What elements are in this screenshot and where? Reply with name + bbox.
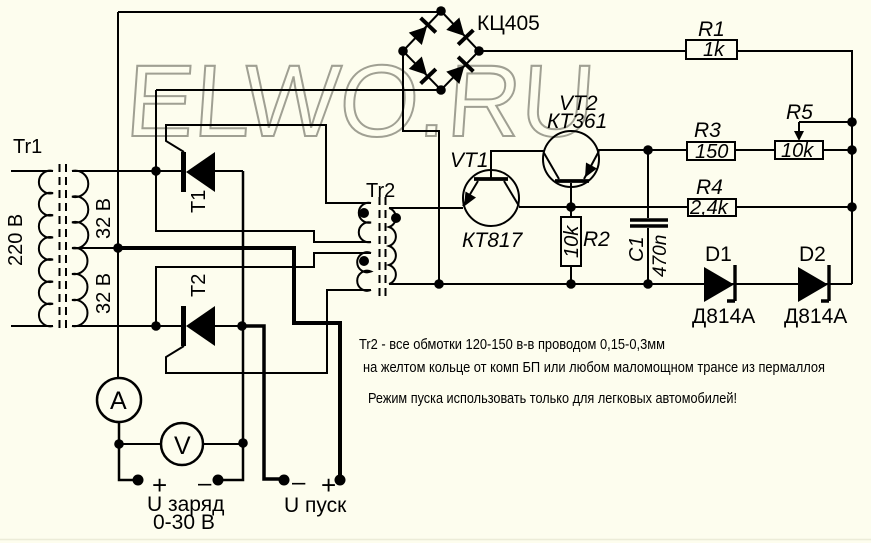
svg-text:R5: R5	[786, 101, 813, 124]
thyristor T1 cathode bar	[181, 152, 186, 192]
resistor R3 box	[687, 142, 735, 160]
svg-text:10k: 10k	[561, 225, 583, 258]
wire VT2 base down to node	[570, 183, 572, 207]
transformer Tr1 primary winding	[39, 171, 53, 327]
svg-text:T1: T1	[188, 190, 210, 213]
svg-text:Режим пуска использовать тольк: Режим пуска использовать только для легк…	[368, 391, 737, 407]
potentiometer R5 box	[775, 141, 823, 159]
Tr2 phase dot bottom primary	[359, 256, 369, 266]
junction node R5 bus	[847, 145, 857, 155]
wire Tr1 primary leads	[11, 171, 53, 326]
transistor VT1 emitter with arrow	[463, 181, 478, 206]
wire VT2 emitter to C1 node to R3	[598, 149, 687, 151]
svg-text:ELWO.RU: ELWO.RU	[122, 44, 598, 158]
transformer Tr2 core	[380, 197, 386, 296]
resistor R1 box	[686, 40, 737, 59]
svg-text:на желтом кольце от комп БП ил: на желтом кольце от комп БП или любом ма…	[363, 360, 825, 376]
svg-text:10k: 10k	[781, 140, 814, 162]
bridge diode bottom-left	[408, 55, 436, 83]
zener D2 cathode bar	[821, 265, 829, 301]
wire R1 right to right bus down to bottom bus	[737, 51, 852, 284]
junction node bottom bus x439	[434, 279, 444, 289]
junction node T1 cathode	[151, 166, 161, 176]
svg-text:D1: D1	[705, 243, 732, 266]
wire Tr1 secondary bottom lead to T2	[72, 325, 181, 327]
wire Tr2 secondary top lead to VT1 emitter	[389, 207, 463, 209]
terminal U пуск plus	[335, 475, 346, 486]
zener D2 triangle	[798, 267, 828, 302]
transistor VT1 base bar	[474, 177, 508, 181]
zener D1 cathode bar	[727, 265, 735, 301]
svg-text:220 В: 220 В	[5, 214, 27, 266]
ammeter A	[97, 378, 141, 422]
transformer Tr1 secondary winding lower 32V	[72, 248, 87, 326]
thyristor T2 triangle	[186, 306, 215, 346]
svg-text:Tr2 - все обмотки 120-150 в-в: Tr2 - все обмотки 120-150 в-в проводом 0…	[359, 337, 665, 353]
wire bottom bus Tr2 secondary to right bus	[389, 283, 852, 285]
junction node R2 bottom	[566, 279, 576, 289]
bridge rectifier КЦ405 diamond	[403, 11, 479, 90]
svg-text:32 В: 32 В	[93, 273, 115, 314]
wire R2 leads	[570, 207, 572, 284]
wire VT1 collector to R2 node to R4	[519, 206, 688, 208]
svg-text:V: V	[174, 432, 191, 460]
bridge diode bottom-right	[445, 57, 473, 85]
junction node bridge left	[398, 46, 408, 56]
wire voltmeter to anode bus node	[202, 443, 243, 445]
junction node anode bus	[237, 321, 247, 331]
wire anode bus vertical T1 to voltmeter node	[242, 171, 245, 443]
svg-text:Д814А: Д814А	[784, 305, 847, 328]
transistor VT2 base bar	[555, 179, 589, 183]
bridge diode top-right	[445, 16, 473, 44]
svg-text:R3: R3	[694, 119, 721, 142]
junction node voltmeter anode bus	[238, 438, 248, 448]
svg-text:32 В: 32 В	[93, 198, 115, 239]
wire VT1 base up and right to VT2 collector	[491, 151, 544, 179]
zener D1 triangle	[704, 267, 734, 302]
wire Tr1 secondary top lead to T1	[72, 170, 181, 172]
potentiometer R5 wiper arrowhead	[794, 131, 804, 141]
junction node ammeter voltmeter	[114, 439, 124, 449]
wire Tr1 center tap lead	[72, 247, 118, 249]
wire T2 cathode node up to Tr2 bottom primary	[156, 253, 371, 326]
svg-text:Tr1: Tr1	[13, 136, 42, 158]
bridge diode top-left	[408, 18, 436, 46]
wire T2 anode stub	[215, 325, 242, 327]
svg-text:КТ361: КТ361	[547, 110, 607, 133]
wire thick start bus: center tap to U пуск plus terminal	[118, 248, 340, 479]
svg-text:T2: T2	[188, 274, 210, 297]
transformer Tr1 secondary winding upper 32V	[72, 171, 88, 249]
resistor R4 box	[688, 199, 736, 216]
junction node VT2 emitter C1	[643, 145, 653, 155]
wire bridge bottom node to T1 cathode node	[156, 90, 441, 171]
Tr2 phase dot top primary	[359, 208, 369, 218]
svg-text:U пуск: U пуск	[284, 494, 347, 517]
wire R5 wiper to bus	[799, 122, 852, 133]
wire node to voltmeter	[119, 443, 162, 445]
svg-text:2,4k: 2,4k	[689, 197, 729, 219]
svg-text:R4: R4	[696, 176, 723, 199]
junction node bridge top	[436, 6, 446, 16]
wire node to U заряд plus terminal	[119, 444, 137, 480]
svg-text:1k: 1k	[703, 39, 725, 61]
wire T2 gate to Tr2 bottom primary bottom lead	[166, 290, 371, 373]
junction node C1 bottom	[643, 279, 653, 289]
svg-text:150: 150	[695, 141, 728, 163]
wire anode node to U пуск minus terminal	[242, 326, 282, 479]
transformer Tr2 bottom primary winding	[357, 252, 371, 291]
thyristor T2 cathode bar	[181, 306, 186, 346]
terminal U заряд plus	[133, 475, 144, 486]
transistor VT1 circle	[463, 170, 519, 226]
junction node bridge bottom	[436, 85, 446, 95]
transformer Tr2 top primary winding	[359, 203, 371, 242]
wire bridge right node to R1	[479, 50, 686, 52]
junction node bridge right	[474, 46, 484, 56]
wire R5 right to bus	[823, 149, 852, 151]
transformer Tr2 secondary winding	[389, 208, 396, 284]
wire T1 gate to Tr2 top primary top lead	[166, 125, 371, 203]
transformer Tr1 core	[60, 164, 67, 332]
svg-text:VT1: VT1	[450, 149, 489, 172]
terminal U пуск minus	[279, 475, 290, 486]
svg-text:КЦ405: КЦ405	[477, 12, 540, 35]
wire anode bus to U заряд minus terminal	[219, 443, 243, 480]
svg-text:КТ817: КТ817	[462, 229, 524, 252]
svg-text:R1: R1	[698, 18, 725, 41]
thyristor T1 triangle	[186, 152, 215, 192]
voltmeter V	[161, 423, 203, 465]
Tr2 phase dot secondary	[391, 213, 401, 223]
terminal U заряд minus	[213, 475, 224, 486]
capacitor C1 plates	[630, 218, 668, 222]
svg-text:470n: 470n	[650, 235, 671, 277]
transistor VT1 collector diagonal	[504, 181, 519, 206]
wire ammeter bottom to node	[118, 421, 121, 444]
resistor R2 box vertical	[561, 217, 581, 266]
svg-text:–: –	[292, 469, 306, 496]
svg-text:Tr2: Tr2	[366, 180, 395, 202]
transistor VT2 circle	[543, 131, 599, 187]
svg-text:Д814А: Д814А	[692, 305, 755, 328]
bottom faint line	[0, 539, 871, 541]
wire R4 right to bus	[736, 206, 852, 208]
svg-text:0-30 В: 0-30 В	[153, 511, 215, 534]
transistor VT2 emitter with arrow	[584, 151, 599, 179]
transistor VT2 collector diagonal	[544, 153, 559, 179]
svg-text:C1: C1	[626, 236, 648, 262]
junction node wiper bus	[847, 117, 857, 127]
wire C1 leads	[647, 150, 649, 284]
svg-text:A: A	[110, 387, 127, 415]
svg-text:R2: R2	[583, 228, 610, 251]
junction node T2 cathode	[151, 321, 161, 331]
wire R3 to R5	[735, 149, 775, 151]
wire T1 anode to vertical anode bus	[215, 170, 243, 172]
wire bridge left node down to bottom bus	[403, 51, 439, 284]
junction node VT2 base R2	[566, 202, 576, 212]
svg-text:D2: D2	[799, 243, 826, 266]
wire left bus vertical (bridge top to ammeter)	[117, 12, 119, 379]
wire T1 cathode node down to Tr2 top primary	[156, 171, 371, 242]
wire top from left bus to bridge top node	[118, 11, 441, 13]
junction node Tr1 center tap	[113, 243, 123, 253]
junction node R4 bus	[847, 202, 857, 212]
